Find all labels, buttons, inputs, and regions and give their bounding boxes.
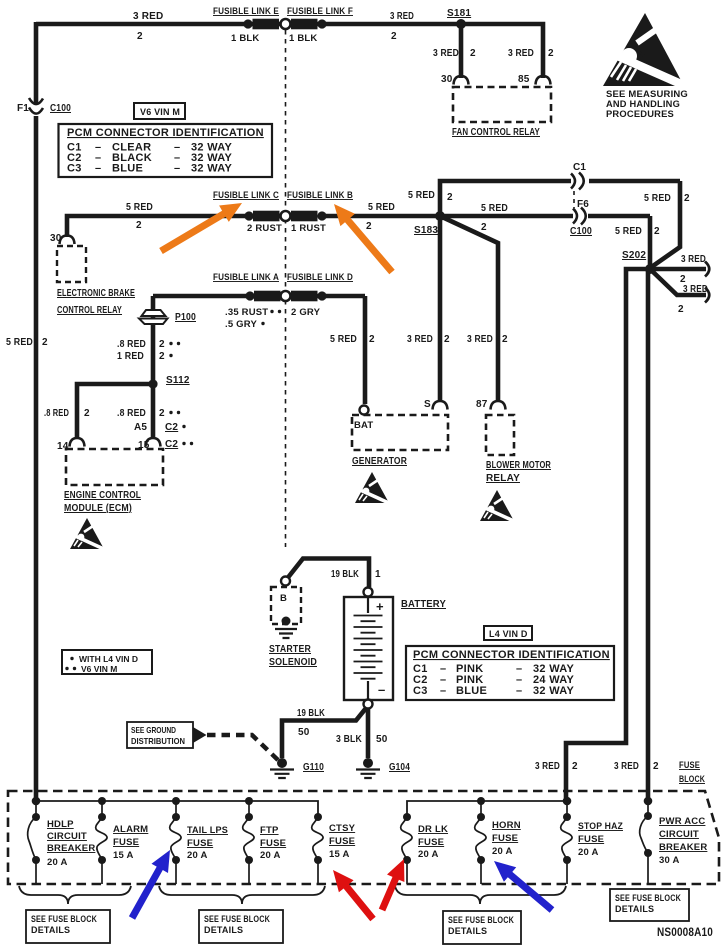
wire link A row from P100 corner to generator BAT xyxy=(153,296,365,404)
svg-text:–: – xyxy=(378,682,385,697)
svg-text:BLOWER MOTOR: BLOWER MOTOR xyxy=(486,460,551,471)
svg-text:3 RED: 3 RED xyxy=(433,48,459,59)
pin cup S generator xyxy=(433,401,448,410)
svg-text:5 RED: 5 RED xyxy=(615,226,642,237)
svg-text:20 A: 20 A xyxy=(187,850,208,861)
svg-text:SEE FUSE BLOCK: SEE FUSE BLOCK xyxy=(204,914,270,924)
starter internal ground dot xyxy=(282,617,291,626)
pin cup 30 EBCR xyxy=(60,236,75,245)
ground G110 xyxy=(277,758,287,768)
svg-text:G104: G104 xyxy=(389,762,410,773)
svg-text:32 WAY: 32 WAY xyxy=(533,685,575,697)
fusible link F xyxy=(291,19,318,30)
fuse ALARM xyxy=(96,801,107,884)
svg-text:DETAILS: DETAILS xyxy=(448,926,487,936)
connector F1 C100 on left bus xyxy=(29,98,43,114)
svg-text:2: 2 xyxy=(653,761,659,772)
see fuse block details box 2 xyxy=(199,910,283,943)
svg-text:5 RED: 5 RED xyxy=(481,203,508,214)
svg-text:2: 2 xyxy=(572,761,578,772)
orange arrow at fusible link C xyxy=(159,203,242,254)
svg-text:NS0008A10: NS0008A10 xyxy=(657,925,713,939)
svg-text:C3: C3 xyxy=(67,163,82,175)
ESD symbol ECM xyxy=(70,518,106,550)
node bus ftp xyxy=(245,797,253,805)
svg-text:HDLP: HDLP xyxy=(47,819,74,830)
svg-text:BLUE: BLUE xyxy=(112,163,143,175)
circuit breaker PWR ACC xyxy=(640,801,652,884)
fusible link E xyxy=(243,19,252,28)
svg-text:–: – xyxy=(174,163,180,175)
svg-text:–: – xyxy=(95,163,101,175)
svg-text:V6 VIN M: V6 VIN M xyxy=(140,107,180,117)
svg-text:2: 2 xyxy=(391,31,397,42)
svg-text:FUSE: FUSE xyxy=(578,834,604,845)
svg-text:RELAY: RELAY xyxy=(486,473,520,484)
svg-text:3 RED: 3 RED xyxy=(535,761,560,772)
svg-text:20 A: 20 A xyxy=(47,857,68,868)
svg-text:WITH L4 VIN D: WITH L4 VIN D xyxy=(79,654,138,664)
svg-text:85: 85 xyxy=(518,74,530,85)
svg-text:PCM CONNECTOR IDENTIFICATION: PCM CONNECTOR IDENTIFICATION xyxy=(67,127,264,139)
svg-text:C100: C100 xyxy=(570,226,592,237)
svg-text:BLUE: BLUE xyxy=(456,685,487,697)
brace group 3 xyxy=(395,886,566,904)
svg-text:2: 2 xyxy=(159,408,165,419)
node bus entry left xyxy=(32,797,41,806)
fuse DR LK xyxy=(401,813,412,884)
node S181 xyxy=(456,19,466,29)
fan control relay pin cups xyxy=(454,76,469,85)
starter solenoid box xyxy=(271,587,301,624)
node bus entry stop haz xyxy=(563,797,572,806)
svg-text:20 A: 20 A xyxy=(492,846,513,857)
svg-text:DR LK: DR LK xyxy=(418,824,448,835)
svg-text:STOP HAZ: STOP HAZ xyxy=(578,821,623,832)
generator box xyxy=(352,415,448,450)
svg-text:2: 2 xyxy=(159,351,165,362)
node S202 xyxy=(645,264,655,274)
svg-text:BLOCK: BLOCK xyxy=(679,774,705,785)
svg-text:B: B xyxy=(280,593,287,604)
svg-text:30: 30 xyxy=(50,233,62,244)
svg-text:FTP: FTP xyxy=(260,825,279,836)
red arrow at ctsy fuse xyxy=(333,870,376,921)
svg-text:BAT: BAT xyxy=(354,420,373,431)
svg-text:2: 2 xyxy=(447,192,453,203)
hook terminal branch 1 xyxy=(705,262,709,277)
svg-text:STARTER: STARTER xyxy=(269,644,311,655)
svg-text:ELECTRONIC BRAKE: ELECTRONIC BRAKE xyxy=(57,288,135,299)
svg-text:50: 50 xyxy=(376,734,388,745)
wire S183 diagonal down to blower 87 xyxy=(440,216,498,401)
brace group 1 xyxy=(19,886,131,904)
svg-text:FUSE: FUSE xyxy=(492,833,518,844)
engine control module box xyxy=(66,449,163,485)
svg-text:5 RED: 5 RED xyxy=(408,190,435,201)
svg-text:.8 RED: .8 RED xyxy=(117,408,146,419)
battery box xyxy=(344,597,393,700)
wire battery minus to G110 xyxy=(282,708,367,759)
L4 VIN D box xyxy=(484,626,532,640)
svg-text:FUSE: FUSE xyxy=(679,760,700,771)
svg-text:5 RED: 5 RED xyxy=(126,202,153,213)
fusible link C xyxy=(244,211,253,220)
svg-text:FUSIBLE LINK E: FUSIBLE LINK E xyxy=(213,6,279,17)
svg-text:1 BLK: 1 BLK xyxy=(231,33,259,44)
svg-text:DETAILS: DETAILS xyxy=(615,904,654,914)
svg-text:PROCEDURES: PROCEDURES xyxy=(606,109,674,120)
svg-text:ALARM: ALARM xyxy=(113,824,148,835)
svg-text:MODULE (ECM): MODULE (ECM) xyxy=(64,503,132,514)
svg-text:PWR ACC: PWR ACC xyxy=(659,816,705,827)
svg-text:PCM CONNECTOR IDENTIFICATION: PCM CONNECTOR IDENTIFICATION xyxy=(413,649,610,661)
svg-text:2: 2 xyxy=(42,337,48,348)
connector F6 C100 xyxy=(573,208,586,225)
svg-text:BREAKER: BREAKER xyxy=(659,842,707,853)
fusible link B xyxy=(291,211,318,222)
fuse block bus 1 xyxy=(36,801,318,817)
svg-text:C3: C3 xyxy=(413,685,428,697)
svg-text:1 RED: 1 RED xyxy=(117,351,144,362)
PCM connector identification box 1 xyxy=(59,124,273,177)
svg-text:S202: S202 xyxy=(622,250,646,261)
svg-text:CTSY: CTSY xyxy=(329,823,356,834)
brace group 2 xyxy=(159,886,325,904)
svg-text:CIRCUIT: CIRCUIT xyxy=(659,829,699,840)
svg-text:2: 2 xyxy=(136,220,142,231)
svg-text:1 RUST: 1 RUST xyxy=(291,223,326,234)
svg-text:FUSE: FUSE xyxy=(187,838,213,849)
battery terminal circle minus xyxy=(364,700,373,709)
svg-text:.5 GRY: .5 GRY xyxy=(225,319,257,330)
fuse FTP xyxy=(243,801,254,884)
orange arrow at fusible link B xyxy=(334,204,395,274)
svg-text:2: 2 xyxy=(159,339,165,350)
svg-text:S112: S112 xyxy=(166,375,190,386)
svg-text:SOLENOID: SOLENOID xyxy=(269,657,317,668)
node bus entry pwr acc xyxy=(644,797,653,806)
svg-text:FUSIBLE LINK F: FUSIBLE LINK F xyxy=(287,6,353,17)
battery terminal circle plus xyxy=(364,588,373,597)
svg-text:30: 30 xyxy=(441,74,453,85)
svg-text:S183: S183 xyxy=(414,225,438,236)
wire S202 left down to stop haz feed xyxy=(566,269,650,799)
svg-text:SEE FUSE BLOCK: SEE FUSE BLOCK xyxy=(615,893,681,903)
ESD symbol generator xyxy=(355,472,391,504)
wire S183 down to generator S xyxy=(438,216,443,401)
svg-text:G110: G110 xyxy=(303,762,324,773)
svg-text:FUSIBLE LINK A: FUSIBLE LINK A xyxy=(213,272,279,283)
wire S202 down to pwr acc feed xyxy=(646,271,651,799)
svg-text:C100: C100 xyxy=(50,103,71,114)
connector P100 grommet xyxy=(142,310,166,316)
svg-text:20 A: 20 A xyxy=(260,850,281,861)
svg-text:.35 RUST: .35 RUST xyxy=(225,307,268,318)
svg-text:20 A: 20 A xyxy=(578,847,599,858)
svg-text:2: 2 xyxy=(502,334,508,345)
svg-text:5 RED: 5 RED xyxy=(644,193,671,204)
svg-text:2: 2 xyxy=(84,408,90,419)
wire dashed between C1 and F6 xyxy=(573,191,575,208)
svg-text:2: 2 xyxy=(369,334,375,345)
fan control relay box xyxy=(453,87,551,122)
svg-text:2: 2 xyxy=(684,193,690,204)
svg-text:19 BLK: 19 BLK xyxy=(297,708,325,719)
svg-text:FUSIBLE LINK C: FUSIBLE LINK C xyxy=(213,190,279,201)
wire EBCR pin30 up to link C xyxy=(67,216,249,237)
svg-text:3 RED: 3 RED xyxy=(683,284,708,295)
node bus tail lps xyxy=(172,797,180,805)
fuse HORN xyxy=(475,801,486,884)
circuit breaker HDLP xyxy=(28,801,40,884)
svg-text:2: 2 xyxy=(366,221,372,232)
svg-text:20 A: 20 A xyxy=(418,849,439,860)
wire S183 up across C1 to right vertical xyxy=(440,181,680,268)
starter ground symbol xyxy=(275,629,297,638)
svg-text:CIRCUIT: CIRCUIT xyxy=(47,831,87,842)
blower motor relay box xyxy=(486,415,514,455)
pin cup 87 blower xyxy=(491,401,506,410)
wire link B to S183 to F6 to S202 xyxy=(322,216,650,269)
svg-text:FUSE: FUSE xyxy=(113,837,139,848)
svg-text:FUSIBLE LINK B: FUSIBLE LINK B xyxy=(287,190,353,201)
node bus horn xyxy=(477,797,485,805)
fuse block bus 2 xyxy=(407,801,567,817)
svg-text:2: 2 xyxy=(654,226,660,237)
wire left main bus vertical xyxy=(34,22,39,800)
wire top 3 RED horizontal xyxy=(36,22,461,27)
svg-text:F6: F6 xyxy=(577,199,589,210)
wire S202 branch 2 right xyxy=(650,269,706,295)
fuse block dashed border xyxy=(8,791,719,884)
svg-text:BATTERY: BATTERY xyxy=(401,599,446,610)
see fuse block details box 1 xyxy=(26,910,110,943)
wire battery minus to G104 xyxy=(366,708,371,758)
svg-text:–: – xyxy=(516,685,522,697)
svg-text:FAN CONTROL RELAY: FAN CONTROL RELAY xyxy=(452,127,540,138)
svg-text:DETAILS: DETAILS xyxy=(31,925,70,935)
svg-text:19 BLK: 19 BLK xyxy=(331,569,359,580)
svg-text:.8 RED: .8 RED xyxy=(117,339,146,350)
fuse STOP HAZ xyxy=(561,801,572,884)
svg-text:BREAKER: BREAKER xyxy=(47,843,95,854)
svg-text:S181: S181 xyxy=(447,8,471,19)
svg-text:–: – xyxy=(440,685,446,697)
wire S181 to fan relay pins xyxy=(461,24,543,78)
red arrow at dr lk fuse xyxy=(379,859,405,911)
pin cups ECM 14 15 xyxy=(70,438,85,447)
terminal circle BAT generator xyxy=(360,406,369,415)
terminal circle starter B xyxy=(281,577,290,586)
svg-text:F1: F1 xyxy=(17,103,29,114)
hook terminal branch 2 xyxy=(705,288,709,303)
svg-text:GENERATOR: GENERATOR xyxy=(352,456,407,467)
svg-text:HORN: HORN xyxy=(492,820,521,831)
legend dots for variant wires xyxy=(169,310,281,445)
svg-text:2: 2 xyxy=(678,304,684,315)
wire P100 down to S112 xyxy=(151,296,156,384)
battery plates xyxy=(367,597,369,613)
fusible link D xyxy=(291,291,318,302)
svg-text:FUSE: FUSE xyxy=(260,838,286,849)
svg-text:3 RED: 3 RED xyxy=(614,761,639,772)
svg-text:+: + xyxy=(376,599,384,614)
svg-text:2: 2 xyxy=(470,48,476,59)
svg-text:15: 15 xyxy=(138,440,150,451)
svg-text:FUSE: FUSE xyxy=(329,836,355,847)
see fuse block details box 4 xyxy=(610,889,689,921)
svg-text:3 RED: 3 RED xyxy=(681,254,706,265)
svg-text:5 RED: 5 RED xyxy=(6,337,33,348)
svg-text:2 RUST: 2 RUST xyxy=(247,223,282,234)
svg-text:2: 2 xyxy=(444,334,450,345)
wire dashed to G110 xyxy=(207,735,278,760)
connector C1 xyxy=(571,173,584,190)
svg-text:.8 RED: .8 RED xyxy=(44,408,69,419)
fuse TAIL LPS xyxy=(170,801,181,884)
ESD symbol large xyxy=(603,13,690,88)
svg-text:50: 50 xyxy=(298,727,310,738)
svg-text:C2: C2 xyxy=(165,422,178,433)
svg-text:3 RED: 3 RED xyxy=(467,334,493,345)
svg-text:14: 14 xyxy=(57,441,69,452)
svg-text:S: S xyxy=(424,399,431,410)
svg-text:L4 VIN D: L4 VIN D xyxy=(489,629,528,639)
svg-text:SEE FUSE BLOCK: SEE FUSE BLOCK xyxy=(448,915,514,925)
electronic brake control relay box xyxy=(57,246,86,282)
svg-text:SEE GROUND: SEE GROUND xyxy=(131,725,176,735)
svg-text:15 A: 15 A xyxy=(113,850,134,861)
node S112 xyxy=(148,379,157,388)
wire S112 to ECM pins xyxy=(77,384,153,438)
PCM connector identification box 2 xyxy=(406,646,614,700)
svg-text:30 A: 30 A xyxy=(659,855,680,866)
svg-text:A5: A5 xyxy=(134,422,147,433)
fuse CTSY xyxy=(312,813,323,884)
svg-text:32 WAY: 32 WAY xyxy=(191,163,233,175)
wire dashed center line xyxy=(285,30,287,547)
svg-text:P100: P100 xyxy=(175,312,196,323)
svg-text:3 BLK: 3 BLK xyxy=(336,734,362,745)
wire S202 branch 1 right xyxy=(650,267,706,272)
svg-text:2 GRY: 2 GRY xyxy=(291,307,321,318)
wire starter B to battery plus xyxy=(288,559,369,588)
node S183 xyxy=(435,211,445,221)
blue arrow at horn fuse xyxy=(494,861,554,913)
svg-text:FUSE: FUSE xyxy=(418,837,444,848)
svg-text:ENGINE CONTROL: ENGINE CONTROL xyxy=(64,490,141,501)
svg-text:SEE FUSE BLOCK: SEE FUSE BLOCK xyxy=(31,914,97,924)
V6 VIN M box xyxy=(134,103,185,119)
svg-text:CONTROL RELAY: CONTROL RELAY xyxy=(57,305,122,316)
svg-text:DISTRIBUTION: DISTRIBUTION xyxy=(131,736,185,746)
svg-text:V6 VIN M: V6 VIN M xyxy=(81,664,117,674)
svg-text:3 RED: 3 RED xyxy=(508,48,534,59)
node bus alarm xyxy=(98,797,106,805)
blue arrow at tail lps fuse xyxy=(129,850,170,920)
svg-text:C2: C2 xyxy=(165,439,178,450)
svg-text:FUSIBLE LINK D: FUSIBLE LINK D xyxy=(287,272,353,283)
svg-text:1: 1 xyxy=(375,569,381,580)
svg-text:3 RED: 3 RED xyxy=(390,11,414,22)
svg-text:DETAILS: DETAILS xyxy=(204,925,243,935)
svg-text:TAIL LPS: TAIL LPS xyxy=(187,825,228,836)
see fuse block details box 3 xyxy=(443,911,521,944)
svg-text:C1: C1 xyxy=(573,162,586,173)
svg-text:2: 2 xyxy=(137,31,143,42)
legend box with L4 VIN D / V6 VIN M xyxy=(62,650,152,674)
ESD symbol blower xyxy=(480,490,516,522)
fusible link A xyxy=(245,291,254,300)
svg-text:1 BLK: 1 BLK xyxy=(289,33,317,44)
ground G104 xyxy=(363,758,373,768)
svg-text:15 A: 15 A xyxy=(329,849,350,860)
svg-text:2: 2 xyxy=(481,222,487,233)
svg-text:5 RED: 5 RED xyxy=(368,202,395,213)
svg-text:2: 2 xyxy=(548,48,554,59)
svg-text:5 RED: 5 RED xyxy=(330,334,357,345)
svg-text:3 RED: 3 RED xyxy=(133,11,163,22)
svg-text:3 RED: 3 RED xyxy=(407,334,433,345)
svg-text:87: 87 xyxy=(476,399,488,410)
see ground distribution box xyxy=(127,722,193,748)
